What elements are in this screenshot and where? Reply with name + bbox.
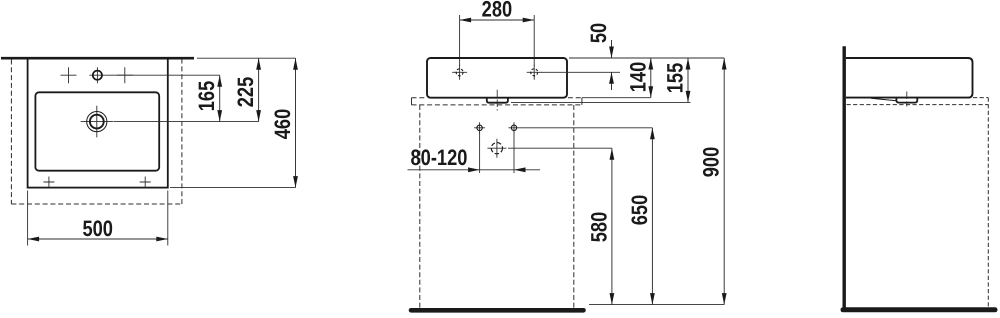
dim 280 line [460,19,535,21]
dim 165 arrow bottom [217,110,222,122]
plan tap hole crosshair [89,67,105,83]
dim 225 arrow bottom [256,110,261,122]
fixing hole left crosshair [474,122,485,133]
dim 165 arrow top [217,75,222,87]
dim 50 arrow down [609,47,614,59]
plan left tap mark [61,67,77,83]
side dashed shelf top right [973,97,988,99]
front tap hole right circle [531,69,538,76]
plan tap hole circle [93,71,102,80]
dim 165 line [219,75,221,121]
dim 140 line [650,58,652,98]
plan dashed outline left [10,60,12,205]
svg-text:140: 140 [625,62,650,93]
side dashed shelf bottom [847,104,989,106]
dim 80-120 arrow right [468,167,480,172]
shelf dashed top right [568,97,582,99]
fixing hole left circle [477,125,482,130]
front tap hole left circle [456,69,463,76]
dim 500 arrow right [156,237,168,242]
ext fixing hole right down [513,131,515,173]
dim 140 arrow bottom [648,86,653,98]
ext tap line right [541,71,620,73]
dim 900 arrow bottom [722,293,727,305]
dim 650 arrow top [650,128,655,140]
ext right tap to 280 dim [533,15,535,66]
dim 460 line [295,58,297,187]
dim 460 arrow top [293,58,298,69]
plan right tap mark [117,67,133,83]
svg-text:650: 650 [627,195,652,226]
plan wall line thick [1,57,194,60]
shelf right edge [581,98,583,105]
dim 280 arrow left [460,18,472,23]
front drain outlet tab [487,98,508,103]
ext top edge to 460 dim [197,57,296,59]
svg-text:280: 280 [482,0,513,22]
front floor thick bar [411,308,584,313]
dim 80-120 arrow left [514,167,526,172]
side drain outlet tab [896,98,917,103]
dim 650 arrow bottom [650,293,655,305]
dim 500 arrow left [28,237,39,242]
front tap hole right crosshair [527,65,542,80]
side floor thick bar [843,307,995,312]
plan basin outer rect [28,58,168,187]
ext right edge to 500 dim [167,191,169,246]
shelf dashed bottom [412,104,582,106]
ext drain to 225 dim [114,121,259,123]
svg-text:50: 50 [586,23,611,43]
plan inner bowl [35,92,159,170]
ext basin top right [569,57,724,59]
ext floor right [589,304,724,306]
plan fixing cross left [43,177,54,188]
svg-text:225: 225 [233,77,258,108]
plan drain crosshair [81,106,113,138]
dim 155 arrow bottom [686,91,691,103]
plan fixing cross right [140,177,151,188]
svg-text:500: 500 [82,216,113,241]
ext left edge to 500 dim [27,191,29,246]
svg-text:460: 460 [270,109,295,140]
front drain centerline [496,90,498,111]
dim 280 arrow right [523,18,535,23]
front basin rect [427,58,567,98]
ext outlet bottom right [511,101,691,103]
side drain centerline [906,92,908,107]
dim 225 arrow top [256,58,261,69]
fixing hole right crosshair [509,122,520,133]
dim 900 line [723,58,725,305]
ext tap hole to 165 dim [106,74,220,76]
svg-text:900: 900 [699,147,724,178]
svg-text:155: 155 [663,63,688,94]
plan drain inner circle [90,115,104,129]
plan dashed outline right [181,60,183,205]
shelf dashed top left [412,97,427,99]
dim 50 upper line [611,40,613,58]
side wall line thick [843,46,846,311]
ext bottom edge to 460 dim [170,187,296,189]
fixing hole right circle [511,125,516,130]
svg-text:165: 165 [194,81,219,112]
side basin profile [846,58,973,98]
dim 80-120 line [408,169,541,171]
svg-text:580: 580 [586,212,611,243]
dim 650 line [651,128,653,305]
dim 225 line [258,58,260,121]
dim 500 line [28,238,168,240]
dim 580 line [611,148,613,304]
ext fixing holes right [520,127,653,129]
dim 50 lower line [611,72,613,90]
ext left tap to 280 dim [459,15,461,66]
plan drain outer circle [87,112,107,132]
waste outlet crosshair [487,139,506,158]
dim 155 line [687,58,689,102]
svg-text:80-120: 80-120 [411,145,468,170]
dim 140 arrow top [648,58,653,70]
dim 580 arrow bottom [610,293,615,305]
ext waste outlet right [508,147,612,149]
pedestal dashed right [573,105,575,308]
dim 580 arrow top [610,148,615,160]
side bowl slope line [871,98,896,101]
waste outlet dashed circle [491,143,502,154]
ext fixing hole left down [479,132,481,173]
pedestal dashed left [419,105,421,308]
front tap hole left crosshair [452,65,467,80]
side dashed front edge [987,98,989,308]
dim 155 arrow top [686,58,691,70]
plan dashed outline bottom [11,203,182,205]
dim 900 arrow top [722,58,727,70]
dim 50 arrow up [609,72,614,84]
shelf left edge [411,98,413,105]
ext basin bottom right [582,97,651,99]
dim 460 arrow bottom [293,176,298,188]
